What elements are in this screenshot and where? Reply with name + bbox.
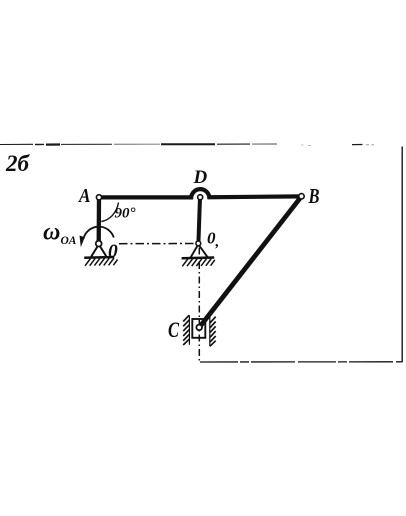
svg-text:B: B xyxy=(308,184,320,208)
svg-text:D: D xyxy=(193,167,208,188)
rotation arrow arc omega xyxy=(84,227,114,239)
right border line xyxy=(401,147,403,363)
pin O1 xyxy=(196,241,201,246)
svg-text:A: A xyxy=(77,185,90,207)
link AO (crank) xyxy=(97,197,102,243)
svg-text:2б: 2б xyxy=(5,151,31,176)
dash-dot vertical line through O1 and C xyxy=(198,248,200,361)
link BC (rod) xyxy=(199,196,301,327)
pin B xyxy=(299,194,304,199)
svg-text:90°: 90° xyxy=(115,206,136,222)
svg-text:ω: ω xyxy=(43,220,60,246)
pin D xyxy=(198,195,203,200)
link DO1 xyxy=(198,197,200,243)
support O1 triangle xyxy=(191,245,208,258)
support O hatching xyxy=(85,258,118,266)
support O1 hatching xyxy=(182,259,215,267)
pin C xyxy=(196,325,202,331)
angle arc at A xyxy=(101,203,118,222)
slider block C xyxy=(192,319,205,338)
bottom border line xyxy=(200,361,402,363)
svg-text:,: , xyxy=(215,234,220,250)
pin A xyxy=(96,195,101,200)
rotation arrowhead xyxy=(80,236,85,248)
support O1 base xyxy=(182,256,215,259)
top border line xyxy=(0,144,374,145)
slider guide right hatching xyxy=(210,317,216,347)
slider guide right wall line xyxy=(209,317,211,347)
support O base xyxy=(84,256,114,259)
svg-text:C: C xyxy=(168,317,179,342)
slider guide left hatching xyxy=(183,315,189,345)
support O triangle xyxy=(91,245,106,257)
link ADB (horizontal bar with bump over D) xyxy=(99,189,302,197)
dash-dot line O to O1 xyxy=(119,243,195,245)
svg-text:0: 0 xyxy=(108,242,118,263)
pin O xyxy=(96,241,102,247)
slider guide left wall line xyxy=(188,315,190,345)
svg-text:OA: OA xyxy=(61,235,77,247)
